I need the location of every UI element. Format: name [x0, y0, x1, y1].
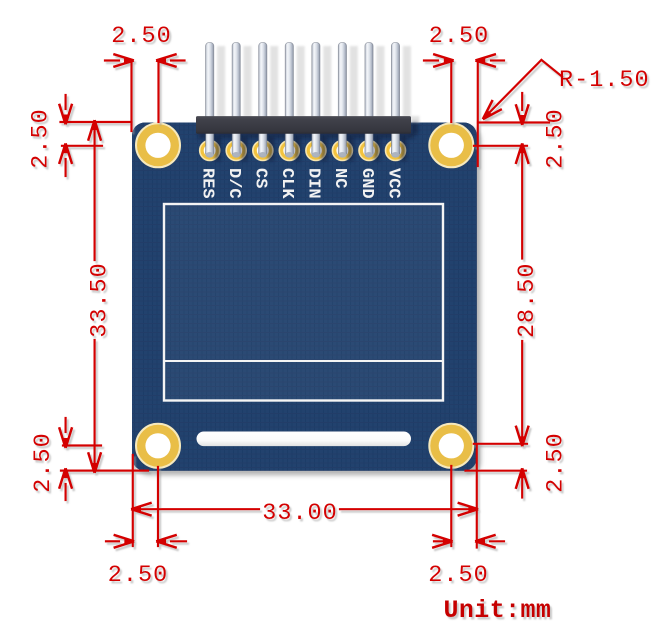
pin NC [338, 43, 346, 157]
solder pad CS [253, 141, 273, 161]
svg-text:28.50: 28.50 [514, 263, 541, 339]
pin shadows on white background [217, 46, 419, 123]
pin and header shadows on board [198, 123, 418, 162]
dim 2.50 left-top arrows [64, 95, 66, 109]
pcb board [132, 123, 477, 471]
dim 33.00 extension lines [132, 455, 134, 546]
dim 2.50 bottom-right arrows [434, 540, 447, 542]
solder pad CLK [279, 141, 299, 161]
svg-text:D/C: D/C [224, 168, 243, 199]
mounting hole bottom-right [429, 424, 473, 468]
dim right-bottom reference lines [474, 443, 527, 445]
mounting hole bottom-left [136, 424, 180, 468]
mounting hole top-left [136, 123, 180, 167]
pin RES [206, 43, 214, 157]
svg-text:NC: NC [330, 168, 349, 188]
dim 2.50 top-right arrows [424, 59, 438, 61]
svg-text:2.50: 2.50 [28, 108, 55, 168]
svg-text:2.50: 2.50 [429, 23, 489, 50]
pin GND [365, 43, 373, 157]
svg-text:Unit:mm: Unit:mm [444, 596, 552, 625]
solder pad RES [200, 141, 220, 161]
mounting hole top-right [429, 123, 473, 167]
pin tip shading [206, 152, 400, 158]
pin DIN [312, 43, 320, 157]
svg-text:33.50: 33.50 [87, 262, 114, 338]
dim 33.50 line with arrows [89, 121, 101, 139]
pin CS [259, 43, 267, 157]
svg-text:33.00: 33.00 [262, 500, 338, 527]
svg-text:VCC: VCC [383, 168, 402, 199]
header pins P1-P8 [206, 43, 400, 157]
svg-text:2.50: 2.50 [428, 562, 488, 589]
pin header plastic body [196, 116, 411, 134]
slot cutout [197, 432, 412, 447]
svg-text:RES: RES [198, 168, 217, 199]
svg-text:2.50: 2.50 [108, 562, 168, 589]
pin VCC [391, 43, 399, 157]
solder pad DIN [306, 141, 326, 161]
display area outline [164, 204, 443, 401]
dim 28.50 line with arrows [516, 145, 528, 163]
dim 2.50 top-left extension lines [130, 61, 132, 132]
svg-text:2.50: 2.50 [543, 108, 570, 168]
display separator line [164, 360, 443, 362]
dim 2.50 bottom-left arrows [106, 540, 119, 542]
dim 33.00 line with arrows [132, 503, 150, 515]
svg-text:CLK: CLK [277, 168, 296, 199]
solder pad VCC [386, 141, 406, 161]
svg-text:2.50: 2.50 [30, 432, 57, 492]
svg-text:2.50: 2.50 [111, 23, 171, 50]
dim 2.50 right-top arrows [521, 93, 523, 110]
svg-text:R-1.50: R-1.50 [559, 67, 650, 94]
solder pad GND [359, 141, 379, 161]
dim left-bottom reference lines [63, 444, 101, 446]
svg-text:2.50: 2.50 [543, 432, 570, 492]
svg-text:GND: GND [357, 168, 376, 199]
dim right-top reference lines [478, 121, 549, 123]
dim 2.50 top-right extension lines [450, 61, 452, 123]
pin D/C [232, 43, 240, 157]
dim 2.50 right-bottom arrows [521, 472, 523, 498]
svg-text:CS: CS [251, 168, 270, 188]
dim 2.50 left-bottom arrows [64, 418, 66, 432]
solder pad NC [332, 141, 352, 161]
dim 2.50 top-left arrows [105, 59, 119, 61]
pin CLK [285, 43, 293, 157]
svg-text:DIN: DIN [304, 168, 323, 199]
solder pad D/C [226, 141, 246, 161]
dim left reference lines [61, 121, 132, 123]
